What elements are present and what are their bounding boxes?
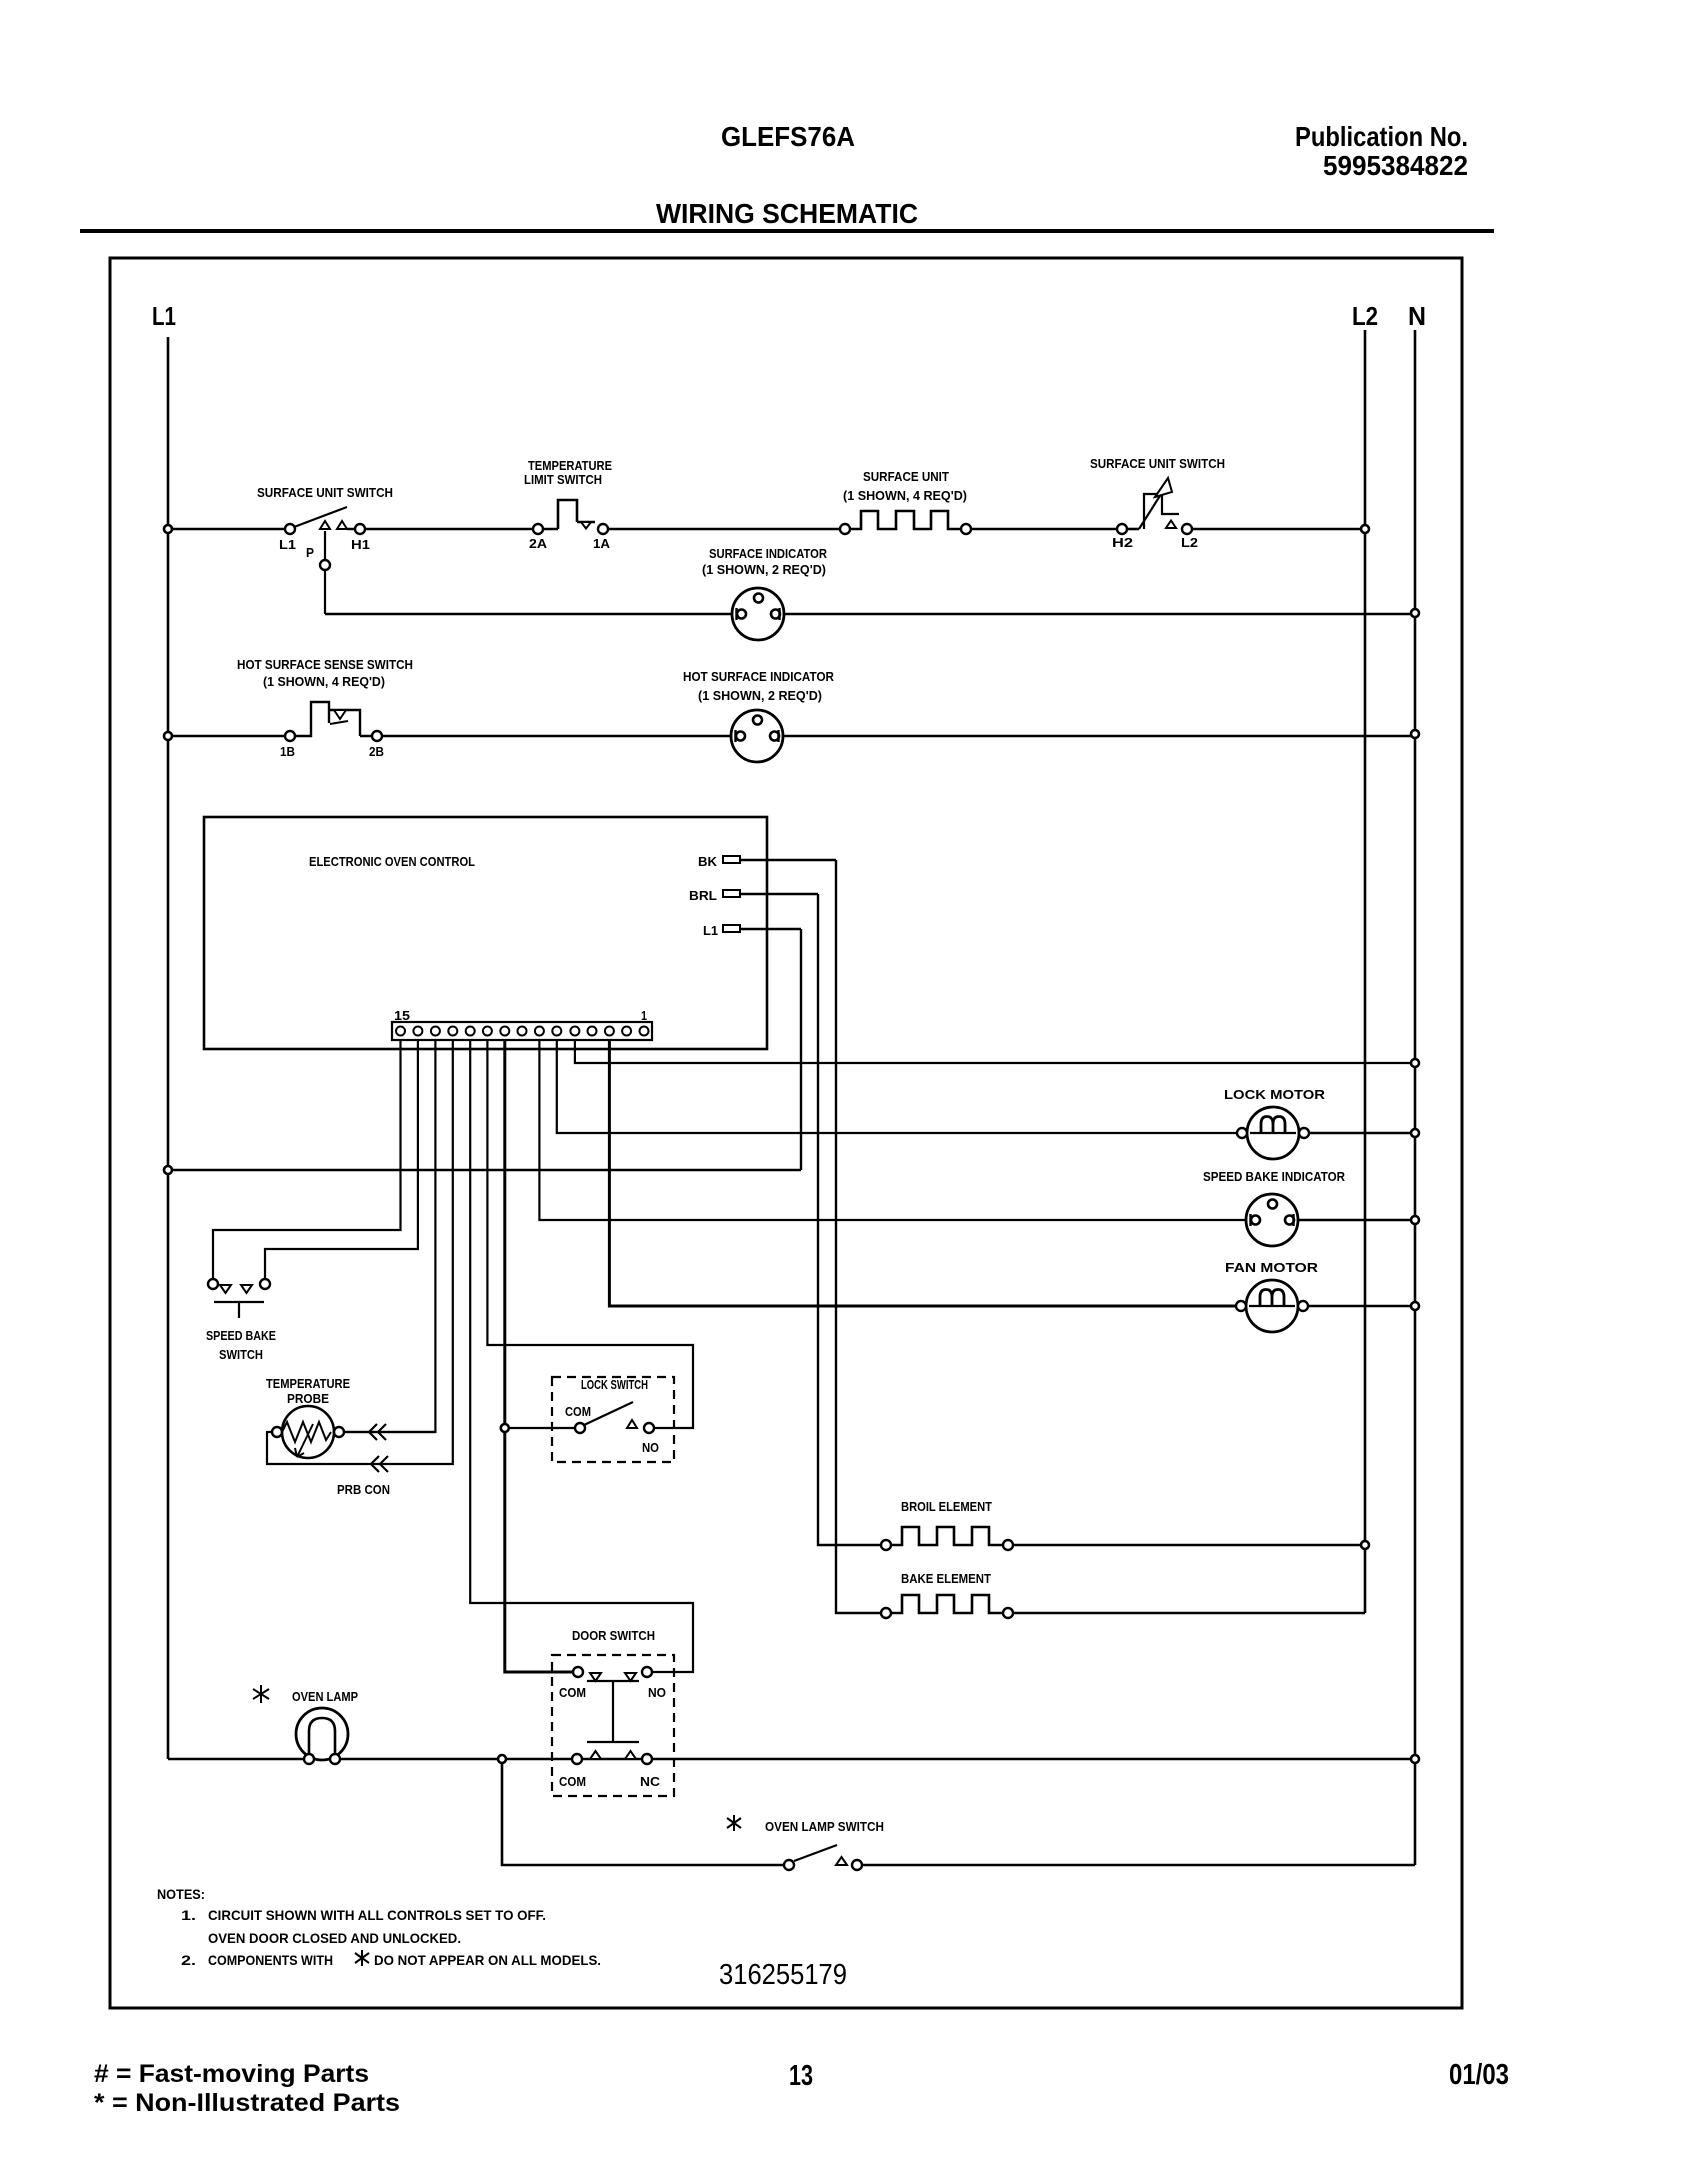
svg-text:13: 13 xyxy=(789,2060,813,2092)
svg-text:SURFACE UNIT SWITCH: SURFACE UNIT SWITCH xyxy=(257,485,393,500)
svg-text:TEMPERATURE: TEMPERATURE xyxy=(528,458,612,473)
svg-text:L1: L1 xyxy=(152,301,176,331)
svg-text:SWITCH: SWITCH xyxy=(219,1347,263,1362)
svg-text:LIMIT SWITCH: LIMIT SWITCH xyxy=(524,472,602,487)
svg-text:SPEED BAKE: SPEED BAKE xyxy=(206,1328,276,1343)
svg-text:PRB CON: PRB CON xyxy=(337,1482,390,1497)
svg-text:LOCK MOTOR: LOCK MOTOR xyxy=(1224,1087,1326,1102)
svg-text:DOOR SWITCH: DOOR SWITCH xyxy=(572,1628,655,1643)
svg-text:TEMPERATURE: TEMPERATURE xyxy=(266,1376,350,1391)
svg-text:BK: BK xyxy=(698,854,718,869)
svg-text:(1 SHOWN, 4 REQ'D): (1 SHOWN, 4 REQ'D) xyxy=(263,674,385,689)
svg-text:2A: 2A xyxy=(529,536,548,551)
svg-text:SURFACE UNIT: SURFACE UNIT xyxy=(863,469,949,484)
svg-text:COMPONENTS WITH: COMPONENTS WITH xyxy=(208,1952,333,1968)
svg-text:L2: L2 xyxy=(1352,301,1378,331)
svg-text:PROBE: PROBE xyxy=(287,1391,329,1406)
svg-text:WIRING SCHEMATIC: WIRING SCHEMATIC xyxy=(656,198,918,229)
svg-text:15: 15 xyxy=(394,1008,410,1023)
svg-text:* = Non-Illustrated Parts: * = Non-Illustrated Parts xyxy=(94,2089,400,2117)
svg-text:N: N xyxy=(1408,301,1426,331)
svg-text:316255179: 316255179 xyxy=(719,1959,847,1991)
svg-text:SURFACE UNIT SWITCH: SURFACE UNIT SWITCH xyxy=(1090,456,1225,471)
svg-text:FAN MOTOR: FAN MOTOR xyxy=(1225,1260,1319,1275)
svg-text:(1 SHOWN, 2 REQ'D): (1 SHOWN, 2 REQ'D) xyxy=(698,688,822,703)
svg-text:1A: 1A xyxy=(593,536,611,551)
svg-text:COM: COM xyxy=(565,1404,591,1419)
svg-text:SURFACE INDICATOR: SURFACE INDICATOR xyxy=(709,546,828,561)
svg-text:(1 SHOWN, 4 REQ'D): (1 SHOWN, 4 REQ'D) xyxy=(843,488,967,503)
svg-text:LOCK SWITCH: LOCK SWITCH xyxy=(581,1377,648,1392)
svg-text:2.: 2. xyxy=(181,1952,196,1968)
svg-text:L1: L1 xyxy=(279,537,296,552)
svg-text:SPEED BAKE INDICATOR: SPEED BAKE INDICATOR xyxy=(1203,1169,1346,1184)
svg-text:2B: 2B xyxy=(369,744,384,759)
svg-text:H1: H1 xyxy=(351,537,370,552)
svg-text:OVEN DOOR CLOSED AND UNLOCKED.: OVEN DOOR CLOSED AND UNLOCKED. xyxy=(208,1930,461,1946)
svg-text:OVEN LAMP: OVEN LAMP xyxy=(292,1689,358,1704)
svg-text:BROIL ELEMENT: BROIL ELEMENT xyxy=(901,1499,992,1514)
svg-text:NOTES:: NOTES: xyxy=(157,1886,205,1902)
svg-text:1: 1 xyxy=(641,1008,647,1023)
svg-text:NC: NC xyxy=(640,1774,661,1789)
svg-text:# = Fast-moving Parts: # = Fast-moving Parts xyxy=(94,2060,369,2088)
svg-text:ELECTRONIC OVEN CONTROL: ELECTRONIC OVEN CONTROL xyxy=(309,854,475,869)
svg-text:L1: L1 xyxy=(703,923,718,938)
svg-text:HOT SURFACE INDICATOR: HOT SURFACE INDICATOR xyxy=(683,669,835,684)
svg-text:H2: H2 xyxy=(1112,535,1133,550)
svg-text:Publication No.: Publication No. xyxy=(1295,121,1468,152)
svg-text:CIRCUIT SHOWN WITH ALL CONTROL: CIRCUIT SHOWN WITH ALL CONTROLS SET TO O… xyxy=(208,1907,546,1923)
svg-text:DO NOT APPEAR ON ALL MODELS.: DO NOT APPEAR ON ALL MODELS. xyxy=(374,1952,601,1968)
svg-text:COM: COM xyxy=(559,1685,586,1700)
svg-text:1B: 1B xyxy=(280,744,295,759)
svg-text:BRL: BRL xyxy=(689,888,717,903)
svg-text:01/03: 01/03 xyxy=(1449,2059,1509,2091)
svg-text:NO: NO xyxy=(648,1685,666,1700)
svg-text:OVEN LAMP SWITCH: OVEN LAMP SWITCH xyxy=(765,1819,884,1834)
svg-text:L2: L2 xyxy=(1181,535,1198,550)
svg-text:(1 SHOWN, 2 REQ'D): (1 SHOWN, 2 REQ'D) xyxy=(702,562,826,577)
svg-text:COM: COM xyxy=(559,1774,586,1789)
svg-text:HOT SURFACE SENSE SWITCH: HOT SURFACE SENSE SWITCH xyxy=(237,657,413,672)
svg-text:P: P xyxy=(306,545,314,560)
svg-text:BAKE ELEMENT: BAKE ELEMENT xyxy=(901,1571,991,1586)
svg-text:1.: 1. xyxy=(181,1907,196,1923)
svg-text:5995384822: 5995384822 xyxy=(1323,150,1468,181)
svg-text:GLEFS76A: GLEFS76A xyxy=(721,121,855,152)
svg-text:NO: NO xyxy=(642,1440,659,1455)
